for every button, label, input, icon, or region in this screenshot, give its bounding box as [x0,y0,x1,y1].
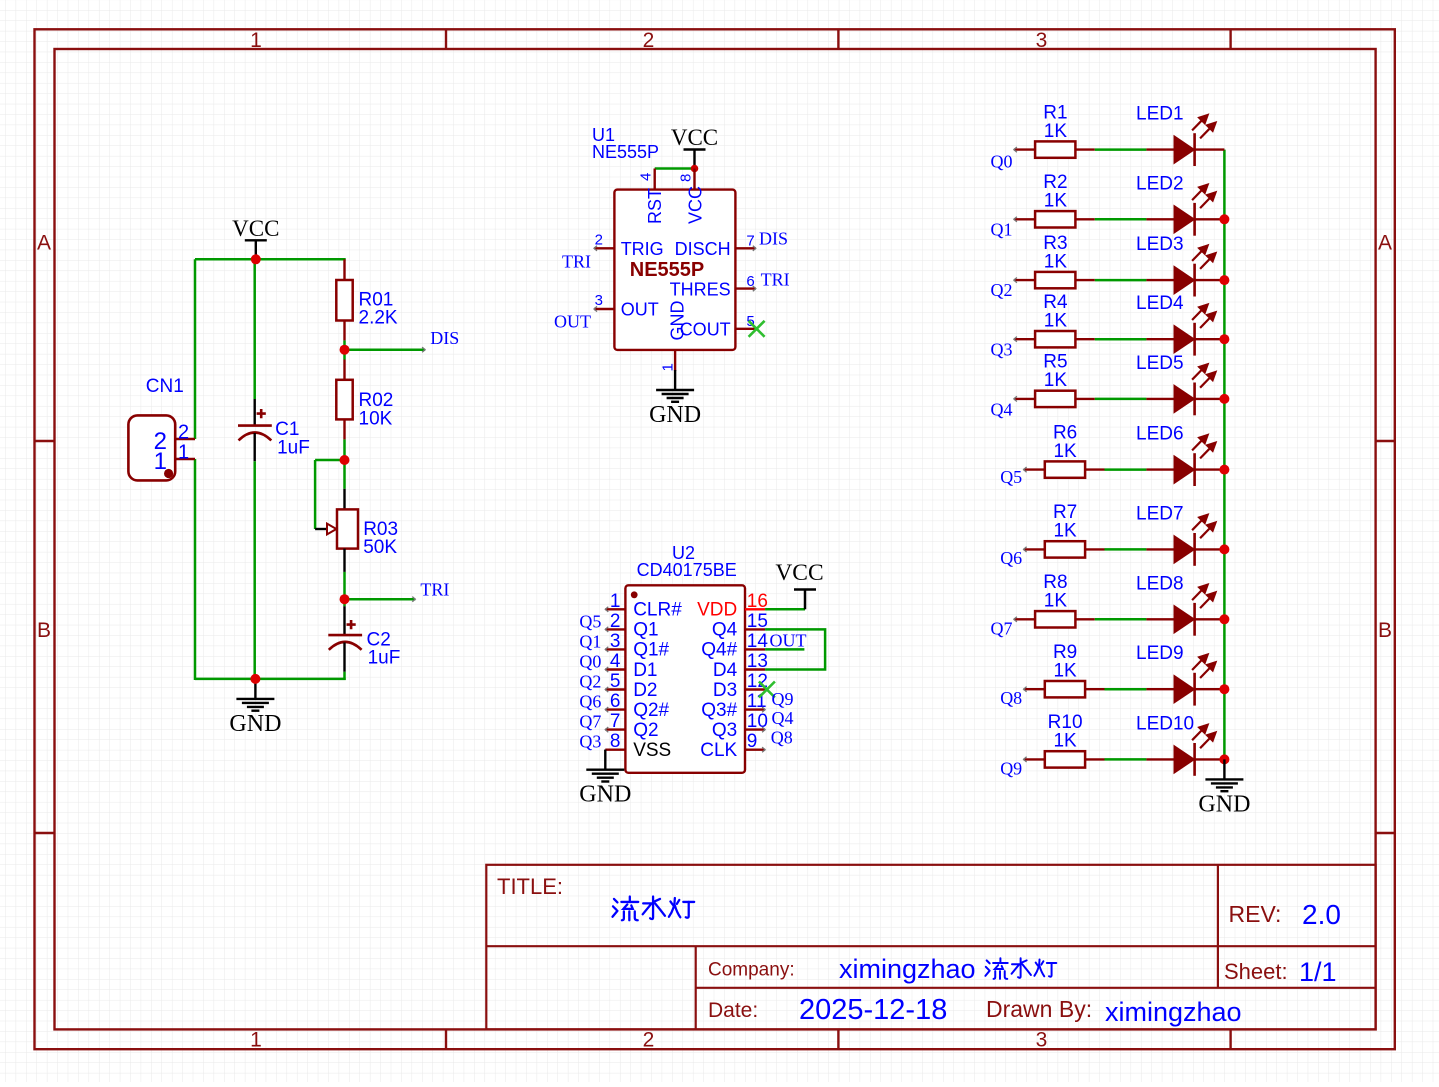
svg-text:2: 2 [643,1029,655,1052]
svg-text:Company:: Company: [708,960,795,981]
svg-text:7: 7 [610,711,621,732]
svg-text:9: 9 [747,731,758,752]
svg-text:7: 7 [746,233,754,250]
svg-text:1K: 1K [1044,591,1068,612]
svg-text:Q2#: Q2# [633,700,669,721]
svg-text:Q3: Q3 [579,732,601,752]
svg-text:OUT: OUT [621,300,659,320]
svg-text:Date:: Date: [708,999,758,1022]
svg-text:2.0: 2.0 [1302,899,1341,930]
svg-text:DIS: DIS [430,328,459,348]
svg-text:50K: 50K [363,537,397,558]
svg-text:LED3: LED3 [1136,234,1184,255]
svg-text:1K: 1K [1044,251,1068,272]
svg-text:3: 3 [1036,29,1048,52]
svg-text:CD40175BE: CD40175BE [637,560,737,580]
svg-text:Q2: Q2 [633,720,658,741]
svg-text:Q1: Q1 [633,620,658,641]
svg-text:Q0: Q0 [579,652,601,672]
svg-text:LED9: LED9 [1136,643,1184,664]
svg-text:COUT: COUT [680,320,731,340]
svg-text:1K: 1K [1053,731,1077,752]
svg-text:LED1: LED1 [1136,104,1184,125]
svg-text:Q4: Q4 [991,399,1013,419]
svg-text:2025-12-18: 2025-12-18 [799,994,947,1026]
svg-text:LED2: LED2 [1136,173,1184,194]
svg-text:B: B [1378,619,1392,642]
svg-text:Drawn By:: Drawn By: [986,996,1092,1022]
svg-text:VCC: VCC [775,560,823,586]
svg-text:NE555P: NE555P [630,259,705,281]
svg-text:Sheet:: Sheet: [1224,959,1288,984]
svg-text:3: 3 [610,631,621,652]
svg-text:1K: 1K [1053,521,1077,542]
svg-text:Q3#: Q3# [701,700,737,721]
svg-text:DISCH: DISCH [675,239,731,259]
svg-text:Q4#: Q4# [701,640,737,661]
svg-text:10K: 10K [359,408,393,429]
svg-text:16: 16 [747,591,768,612]
svg-text:A: A [1378,232,1392,255]
svg-text:VCC: VCC [686,186,706,224]
svg-text:Q6: Q6 [579,692,601,712]
svg-text:D3: D3 [713,680,737,701]
svg-text:Q5: Q5 [1000,467,1022,487]
svg-text:Q9: Q9 [1000,759,1022,779]
svg-text:4: 4 [638,173,655,181]
svg-text:2.2K: 2.2K [359,307,398,328]
svg-text:Q2: Q2 [579,672,601,692]
svg-text:CLR#: CLR# [633,600,682,621]
svg-text:TRI: TRI [420,579,449,599]
svg-text:LED7: LED7 [1136,503,1184,524]
svg-text:8: 8 [610,731,621,752]
svg-text:Q0: Q0 [991,151,1013,171]
svg-text:ximingzhao: ximingzhao [1105,997,1242,1027]
svg-text:Q3: Q3 [712,720,737,741]
svg-text:4: 4 [610,651,621,672]
svg-text:LED5: LED5 [1136,353,1184,374]
svg-text:1uF: 1uF [368,648,401,669]
svg-text:1: 1 [154,448,167,475]
svg-text:REV:: REV: [1229,901,1282,927]
svg-text:1K: 1K [1053,660,1077,681]
svg-text:1K: 1K [1044,370,1068,391]
svg-text:RST: RST [645,188,665,224]
svg-text:Q7: Q7 [991,619,1013,639]
svg-text:LED4: LED4 [1136,293,1184,314]
svg-text:VDD: VDD [697,600,737,621]
svg-text:6: 6 [610,691,621,712]
svg-text:B: B [37,619,51,642]
svg-text:15: 15 [747,611,768,632]
svg-text:1K: 1K [1044,191,1068,212]
svg-text:D2: D2 [633,680,657,701]
svg-text:1uF: 1uF [277,437,310,458]
svg-text:2: 2 [178,422,189,444]
svg-text:D4: D4 [713,660,738,681]
svg-text:TRIG: TRIG [621,239,664,259]
svg-text:2: 2 [595,232,603,249]
svg-text:1: 1 [178,442,189,464]
svg-text:CN1: CN1 [146,376,184,397]
svg-text:OUT: OUT [554,311,591,331]
svg-text:LED10: LED10 [1136,713,1194,734]
svg-text:1: 1 [610,591,621,612]
svg-text:Q4: Q4 [772,708,794,728]
svg-text:LED8: LED8 [1136,573,1184,594]
svg-text:THRES: THRES [670,279,731,299]
svg-text:8: 8 [678,174,695,182]
svg-text:1K: 1K [1044,121,1068,142]
svg-text:3: 3 [595,292,603,309]
svg-text:Q8: Q8 [1000,688,1022,708]
svg-text:GND: GND [667,301,687,341]
svg-text:3: 3 [1036,1029,1048,1052]
svg-text:Q1: Q1 [991,219,1013,239]
svg-text:LED6: LED6 [1136,424,1184,445]
svg-text:2: 2 [610,611,621,632]
svg-text:Q5: Q5 [579,611,601,631]
svg-text:Q1: Q1 [579,631,601,651]
svg-text:Q1#: Q1# [633,640,669,661]
svg-text:Q8: Q8 [771,728,793,748]
svg-text:DIS: DIS [759,229,788,249]
svg-text:1K: 1K [1053,441,1077,462]
svg-text:1K: 1K [1044,310,1068,331]
svg-text:Q3: Q3 [991,340,1013,360]
svg-text:A: A [37,232,51,255]
svg-text:TITLE:: TITLE: [497,874,563,899]
svg-text:VSS: VSS [633,740,671,761]
svg-text:CLK: CLK [700,740,737,761]
svg-text:1: 1 [250,1029,262,1052]
svg-text:OUT: OUT [770,631,807,651]
svg-text:6: 6 [746,273,754,290]
svg-text:Q4: Q4 [712,620,738,641]
svg-text:Q7: Q7 [579,712,601,732]
svg-text:D1: D1 [633,660,657,681]
svg-text:1/1: 1/1 [1299,957,1337,987]
svg-text:2: 2 [643,29,655,52]
svg-text:5: 5 [610,671,621,692]
svg-text:1: 1 [250,29,262,52]
svg-text:TRI: TRI [562,252,591,272]
svg-text:1: 1 [659,363,676,371]
svg-text:ximingzhao: ximingzhao [839,954,976,984]
svg-text:Q2: Q2 [991,280,1013,300]
svg-text:TRI: TRI [761,270,790,290]
svg-text:Q9: Q9 [772,689,794,709]
svg-text:NE555P: NE555P [592,142,659,162]
svg-text:Q6: Q6 [1000,548,1022,568]
svg-text:13: 13 [747,651,768,672]
